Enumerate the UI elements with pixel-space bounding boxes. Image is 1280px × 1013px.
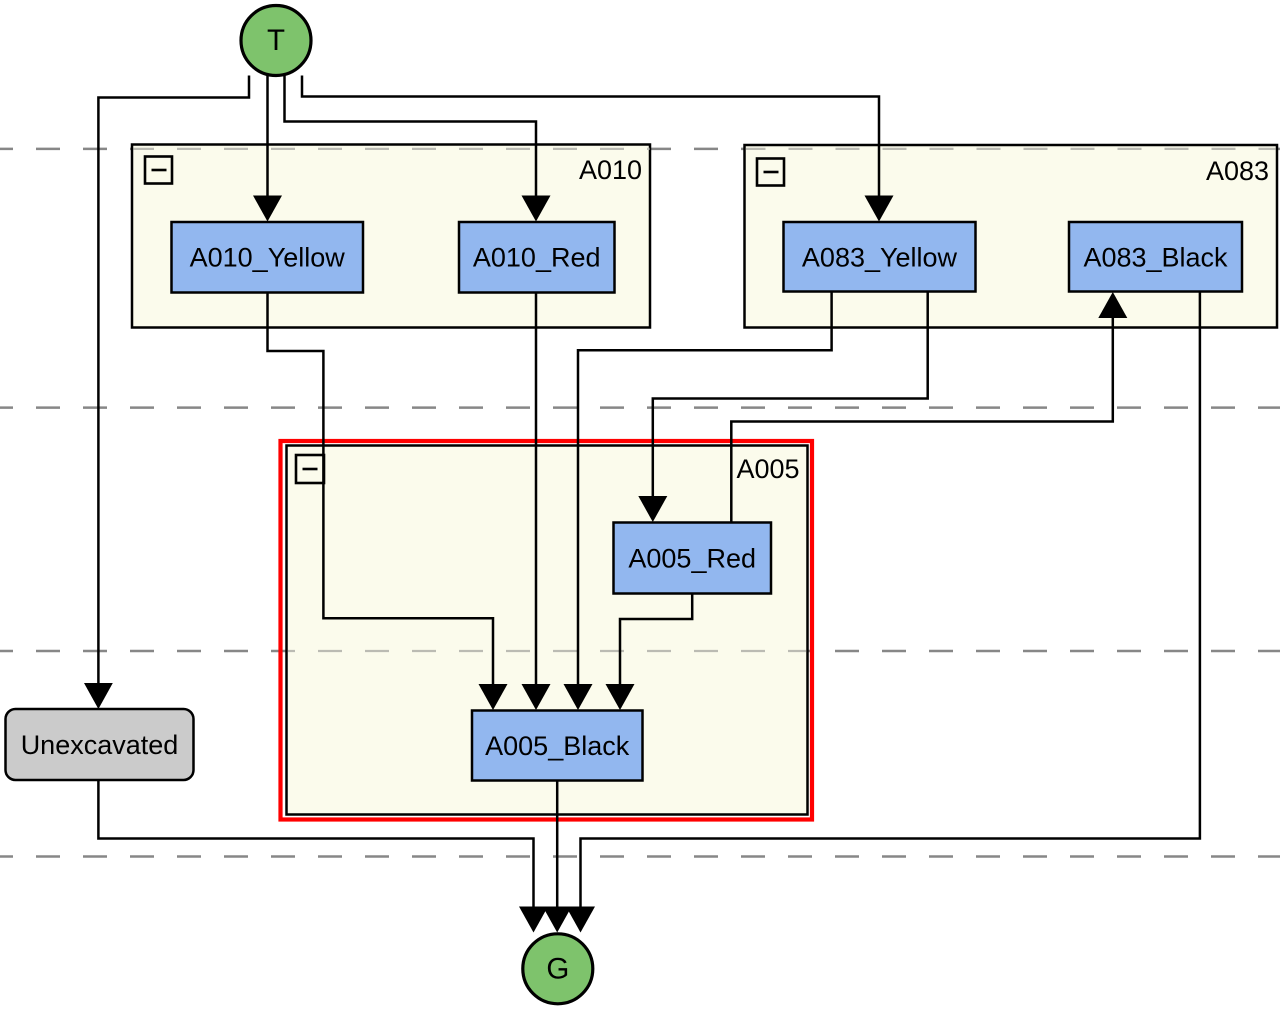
group A083 <box>745 145 1278 328</box>
wire A083_Black to G <box>581 292 1200 907</box>
svg-text:T: T <box>267 24 285 57</box>
wire A010_Yellow to A005_Black <box>268 293 494 685</box>
node A083_Yellow <box>784 222 976 292</box>
wire A005_Red to A083_Black <box>731 318 1113 523</box>
svg-text:A005: A005 <box>736 454 799 484</box>
dashed phase line 3 <box>0 650 1280 653</box>
wire T to A010_Yellow <box>266 76 269 197</box>
wire A005_Black to G <box>556 781 559 907</box>
wire A005_Red to A005_Black <box>620 594 692 685</box>
node G (ground) <box>523 934 593 1004</box>
wire A083_Yellow to A005_Black <box>578 292 832 685</box>
svg-text:A005_Red: A005_Red <box>628 544 756 574</box>
dashed phase line 4 <box>0 855 1280 858</box>
node A083_Black <box>1069 222 1242 292</box>
collapse button A083 <box>757 159 784 186</box>
group A010 <box>132 145 650 328</box>
svg-text:A083: A083 <box>1206 156 1269 186</box>
dashed phase line 1 <box>0 148 1280 151</box>
wire Unexcavated to G <box>98 780 533 907</box>
wire A010_Red to A005_Black <box>535 293 538 685</box>
svg-text:A083_Black: A083_Black <box>1083 243 1228 273</box>
svg-text:A010: A010 <box>579 155 642 185</box>
wire T to A010_Red <box>285 76 537 197</box>
wire T to Unexcavated <box>98 76 249 685</box>
svg-text:A005_Black: A005_Black <box>485 731 630 761</box>
node A005_Black <box>472 711 643 781</box>
group A005 <box>287 446 808 815</box>
svg-text:A010_Yellow: A010_Yellow <box>190 243 346 273</box>
node A005_Red <box>614 523 772 594</box>
svg-text:G: G <box>546 953 569 986</box>
node Unexcavated <box>6 709 194 780</box>
node A010_Red <box>459 222 615 293</box>
wire A083_Yellow to A005_Red <box>653 292 928 497</box>
node T (top) <box>241 6 311 76</box>
svg-text:Unexcavated: Unexcavated <box>21 730 179 760</box>
node A010_Yellow <box>172 222 364 293</box>
group A005 selection highlight <box>281 441 813 820</box>
wire T to A083_Yellow <box>302 76 879 197</box>
dashed phase line 2 <box>0 406 1280 409</box>
svg-text:A083_Yellow: A083_Yellow <box>802 243 958 273</box>
svg-text:A010_Red: A010_Red <box>473 243 601 273</box>
collapse button A005 <box>296 455 324 483</box>
collapse button A010 <box>145 157 172 184</box>
